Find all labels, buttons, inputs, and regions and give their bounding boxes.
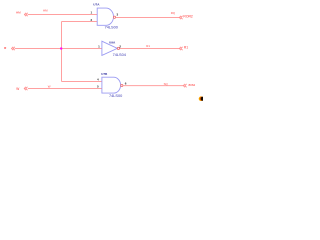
svg-text:W: W	[48, 84, 51, 88]
port connector bottom-left	[24, 87, 27, 90]
corner artifact icon	[199, 96, 205, 101]
svg-text:1: 1	[91, 10, 93, 14]
svg-text:74LS00: 74LS00	[109, 94, 122, 98]
nand U7B body	[102, 77, 121, 93]
svg-text:SQ: SQ	[164, 82, 169, 86]
wire vertical bus	[61, 22, 63, 82]
svg-text:4: 4	[97, 77, 99, 81]
port connector top-left	[24, 13, 27, 16]
svg-text:R1: R1	[184, 45, 188, 49]
junction dot	[60, 48, 62, 50]
svg-text:2: 2	[119, 44, 121, 48]
svg-text:74LS00: 74LS00	[105, 26, 118, 30]
svg-text:U9A: U9A	[109, 41, 116, 45]
svg-text:1: 1	[98, 45, 100, 49]
wire U7A output	[116, 17, 179, 19]
svg-text:U7A: U7A	[93, 3, 100, 7]
wire NAND U7A pin2 horizontal	[62, 21, 98, 23]
svg-text:HM: HM	[16, 11, 21, 15]
wire U9A output	[120, 48, 180, 50]
inverter U9A body	[102, 41, 117, 55]
port connector middle-right	[179, 47, 182, 50]
svg-text:3: 3	[117, 13, 119, 17]
port connector top-right	[179, 16, 182, 19]
svg-text:8062: 8062	[189, 83, 196, 87]
wire top-left input	[28, 14, 98, 16]
nand U7A body	[97, 8, 113, 25]
svg-text:W: W	[16, 87, 19, 91]
svg-text:6: 6	[125, 81, 127, 85]
nand U7A bubble	[113, 16, 115, 18]
wire U7B output	[123, 85, 183, 87]
port connector bottom-right	[183, 84, 186, 87]
wire NAND U7B pin4 horizontal	[62, 81, 102, 83]
svg-text:R1: R1	[146, 44, 150, 48]
svg-text:U7B: U7B	[101, 72, 108, 76]
nand U7B bubble	[121, 84, 123, 86]
svg-text:R: R	[4, 46, 6, 50]
wire middle input	[15, 48, 102, 50]
port connector middle-left	[12, 47, 15, 50]
svg-text:ROR2: ROR2	[183, 15, 193, 19]
svg-text:74LS04: 74LS04	[113, 53, 127, 57]
wire bottom-left input	[28, 88, 102, 90]
svg-text:RQ: RQ	[171, 11, 176, 15]
inverter U9A bubble	[117, 47, 119, 49]
svg-text:HM: HM	[43, 9, 48, 13]
